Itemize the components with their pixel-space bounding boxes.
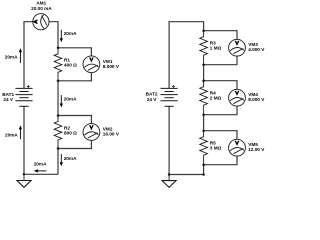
wire: AM1 right terminal to branch top corner [49, 22, 58, 48]
voltmeter VM2 wires [58, 116, 91, 149]
node dot R2 bottom [57, 147, 60, 150]
plus sign BAT1 [27, 85, 30, 88]
ammeter AM1 [33, 14, 49, 30]
node dot R1 bottom [57, 80, 60, 83]
wire: branch R3 to R4 [203, 65, 205, 81]
node dot R5 bottom [202, 163, 205, 166]
svg-text:8.000 V: 8.000 V [248, 97, 265, 102]
voltmeter VM3 [229, 39, 246, 56]
voltmeter VM4 [229, 89, 246, 106]
voltmeter VM1 wires [58, 48, 91, 81]
svg-text:24 V: 24 V [3, 97, 14, 102]
svg-text:12.00 V: 12.00 V [248, 147, 265, 152]
node dot R5 top [202, 129, 205, 132]
resistor R3 [200, 31, 208, 65]
svg-text:8.000 V: 8.000 V [103, 64, 120, 69]
current arrow 20mA (branch middle, down) [60, 95, 77, 107]
svg-text:BAT2: BAT2 [146, 91, 158, 96]
svg-text:AM1: AM1 [36, 1, 46, 6]
current arrow 20mA (branch top, down) [60, 30, 77, 42]
svg-text:4.000 V: 4.000 V [248, 47, 265, 52]
svg-text:20mA: 20mA [64, 31, 77, 36]
wire: branch R1 to R2 [57, 81, 59, 116]
current arrow 20mA (bottom wire, left) [34, 161, 47, 172]
wire: branch R4 to R5 [203, 115, 205, 131]
resistor R4 [200, 81, 208, 115]
voltmeter VM2 [83, 124, 100, 141]
svg-text:400 Ω: 400 Ω [64, 62, 77, 67]
wire: bottom horizontal right [169, 174, 204, 176]
svg-text:20.00 mA: 20.00 mA [31, 6, 52, 11]
battery BAT1 [15, 88, 32, 106]
svg-text:1 MΩ: 1 MΩ [210, 45, 222, 50]
wire: branch below R2 to bottom wire [57, 149, 59, 175]
ground (right) [162, 175, 176, 188]
current arrow 20mA (left rail lower, up) [5, 125, 22, 139]
wire: right circuit top [169, 22, 204, 89]
svg-text:24 V: 24 V [147, 97, 158, 102]
node dot bottom corner right [202, 173, 205, 176]
current arrow 20mA (branch bottom, down) [60, 154, 77, 166]
voltmeter VM4 wires [204, 81, 237, 115]
voltmeter VM1 [83, 56, 100, 73]
voltmeter VM5 [229, 139, 246, 156]
wire: bottom horizontal [24, 173, 58, 175]
current arrow 20mA (left rail upper, up) [5, 48, 22, 63]
node dot ground right [168, 173, 171, 176]
node dot ground left [23, 173, 26, 176]
node dot R4 top [202, 79, 205, 82]
node dot R2 top [57, 114, 60, 117]
svg-text:20mA: 20mA [64, 156, 77, 161]
svg-text:20mA: 20mA [5, 55, 18, 60]
node dot R3 bottom [202, 63, 205, 66]
resistor R5 [200, 131, 208, 165]
wire: battery BAT2 bottom to ground node [168, 106, 170, 174]
node dot R4 bottom [202, 113, 205, 116]
svg-text:16.00 V: 16.00 V [103, 131, 120, 136]
svg-text:2 MΩ: 2 MΩ [210, 95, 222, 100]
resistor R1 [54, 48, 62, 81]
voltmeter VM5 wires [204, 131, 237, 165]
resistor R2 [54, 116, 62, 149]
svg-text:20mA: 20mA [64, 96, 77, 101]
svg-text:800 Ω: 800 Ω [64, 130, 77, 135]
ground (left) [17, 174, 31, 187]
svg-text:3 MΩ: 3 MΩ [210, 145, 222, 150]
plus sign BAT2 [172, 85, 175, 88]
wire: branch below R5 to bottom [203, 165, 205, 175]
wire: top-left corner to AM1 left terminal [24, 22, 33, 89]
node dot R1 top [57, 47, 60, 50]
svg-text:20mA: 20mA [5, 132, 18, 137]
wire: battery bottom to ground node [23, 106, 25, 174]
voltmeter VM3 wires [204, 31, 237, 65]
svg-text:20mA: 20mA [34, 161, 47, 166]
battery BAT2 [161, 88, 178, 106]
node dot R3 top [202, 29, 205, 32]
